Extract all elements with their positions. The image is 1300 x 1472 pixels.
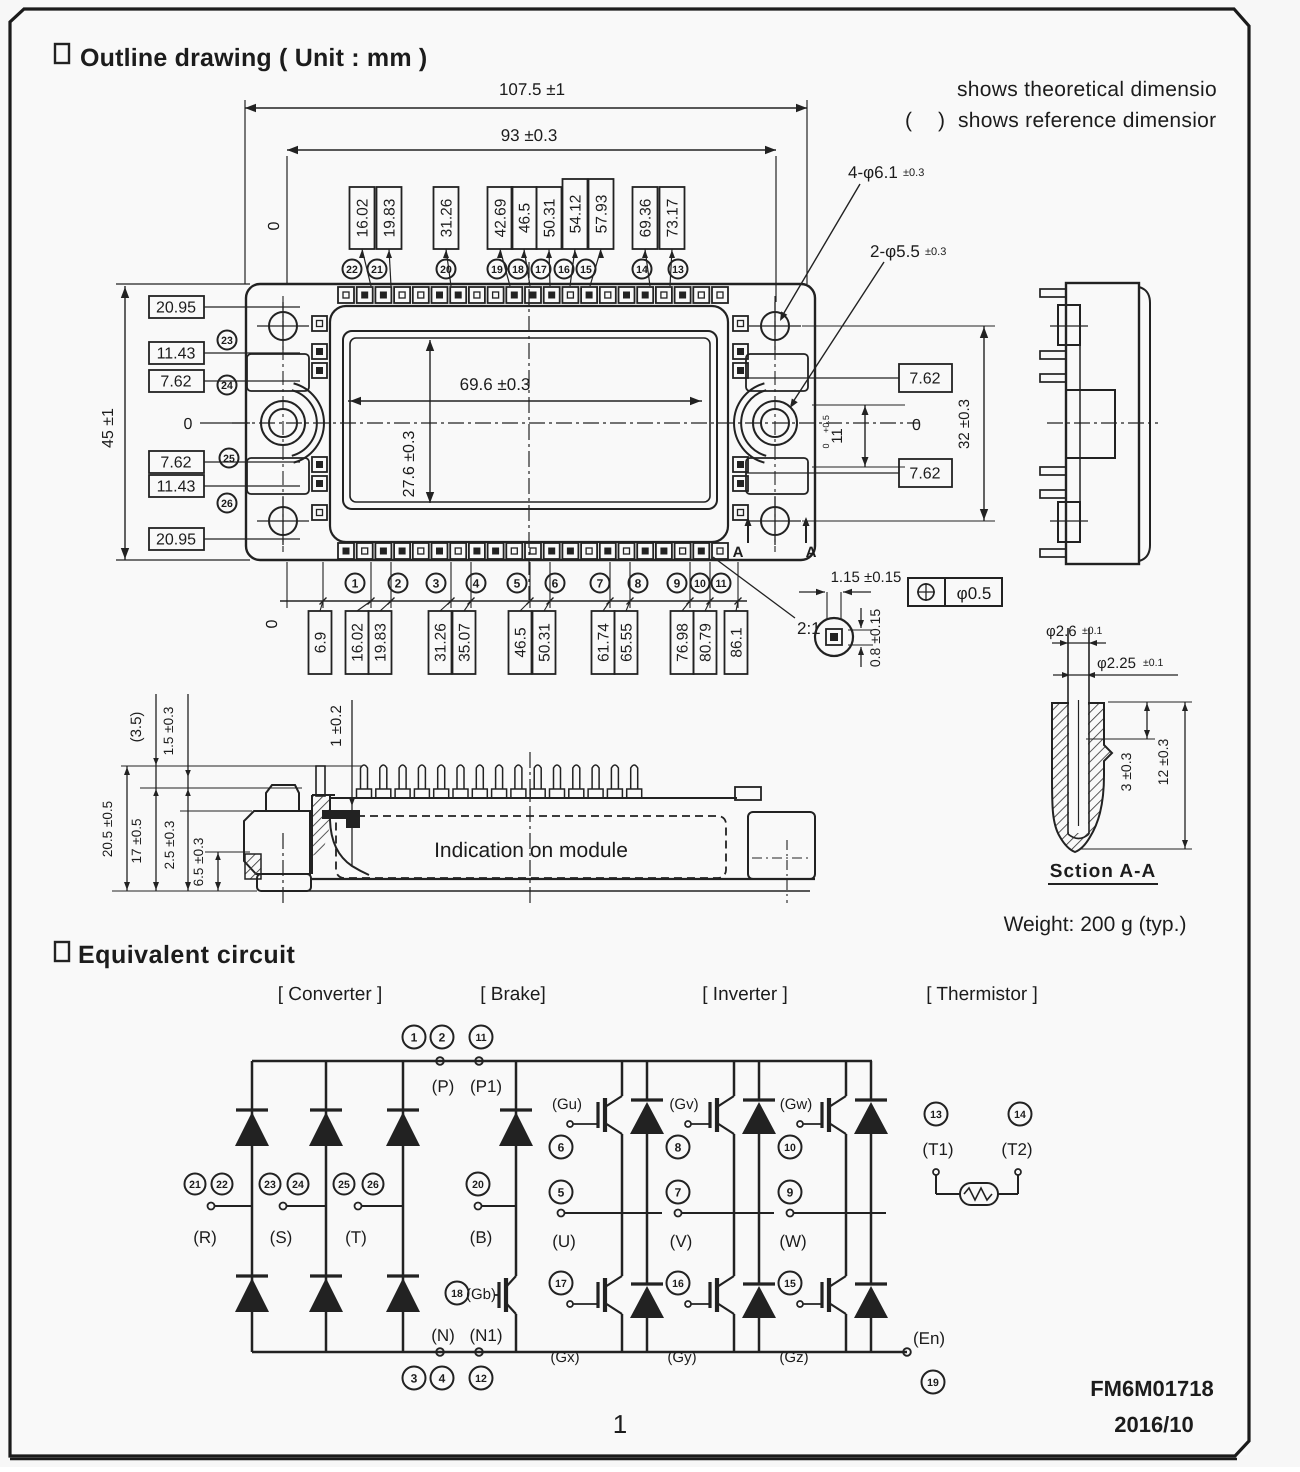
svg-text:17 ±0.5: 17 ±0.5 [129,819,144,864]
svg-text:20.95: 20.95 [156,532,196,549]
svg-text:1: 1 [352,576,359,590]
svg-text:(3.5): (3.5) [128,712,145,743]
svg-text:3: 3 [433,576,440,590]
svg-text:9: 9 [674,576,681,590]
svg-text:(T1): (T1) [922,1140,953,1159]
svg-text:Weight: 200 g (typ.): Weight: 200 g (typ.) [1004,913,1187,936]
svg-text:(S): (S) [270,1228,293,1247]
svg-text:9: 9 [787,1185,794,1199]
svg-text:2: 2 [395,576,402,590]
svg-text:(N1): (N1) [469,1326,502,1345]
svg-text:(W): (W) [779,1232,806,1251]
svg-text:0: 0 [264,619,281,628]
svg-text:(Gv): (Gv) [669,1096,698,1113]
svg-text:26: 26 [221,498,233,510]
svg-text:50.31: 50.31 [537,623,554,662]
svg-text:2: 2 [439,1030,446,1044]
svg-text:(Gw): (Gw) [780,1096,813,1113]
svg-text:45 ±1: 45 ±1 [100,408,117,448]
svg-text:): ) [938,109,945,132]
svg-text:69.6 ±0.3: 69.6 ±0.3 [460,375,531,394]
svg-text:21: 21 [371,264,383,276]
svg-text:1: 1 [411,1030,418,1044]
svg-text:Indication on module: Indication on module [434,839,628,862]
svg-text:(R): (R) [193,1228,217,1247]
svg-text:6: 6 [552,576,559,590]
svg-text:(Gu): (Gu) [552,1096,582,1113]
svg-text:6: 6 [558,1140,565,1154]
svg-text:0: 0 [266,221,283,230]
svg-text:19.83: 19.83 [373,623,390,662]
svg-text:31.26: 31.26 [433,623,450,662]
svg-text:22: 22 [216,1179,228,1191]
svg-text:1.15 ±0.15: 1.15 ±0.15 [831,569,902,586]
svg-text:(Gx): (Gx) [550,1349,579,1366]
svg-text:23: 23 [264,1179,276,1191]
svg-text:(: ( [905,109,912,132]
svg-text:φ0.5: φ0.5 [957,584,992,603]
svg-text:57.93: 57.93 [594,195,611,234]
svg-text:[ Thermistor ]: [ Thermistor ] [926,984,1038,1005]
svg-text:(Gb): (Gb) [466,1286,496,1303]
svg-text:19: 19 [491,264,503,276]
svg-text:4: 4 [439,1371,446,1385]
svg-text:3: 3 [411,1371,418,1385]
svg-text:(T2): (T2) [1001,1140,1032,1159]
svg-text:11: 11 [475,1032,486,1044]
svg-text:13: 13 [672,264,684,276]
svg-text:5: 5 [558,1185,565,1199]
svg-text:7.62: 7.62 [160,455,191,472]
svg-text:69.36: 69.36 [638,199,655,238]
svg-text:26: 26 [367,1179,379,1191]
svg-text:A: A [733,544,744,561]
svg-text:19: 19 [927,1377,939,1389]
svg-text:107.5 ±1: 107.5 ±1 [499,80,565,99]
svg-text:(N): (N) [431,1326,455,1345]
svg-text:20.95: 20.95 [156,300,196,317]
svg-text:[ Brake]: [ Brake] [480,984,545,1005]
svg-text:1: 1 [613,1409,627,1439]
svg-text:61.74: 61.74 [596,623,613,662]
svg-text:73.17: 73.17 [665,199,682,238]
svg-text:14: 14 [636,264,648,276]
svg-text:32 ±0.3: 32 ±0.3 [956,399,973,449]
svg-text:10: 10 [694,578,706,590]
svg-text:3 ±0.3: 3 ±0.3 [1118,752,1134,791]
svg-text:φ2.25: φ2.25 [1097,655,1136,672]
svg-text:17: 17 [555,1278,567,1290]
svg-text:86.1: 86.1 [729,627,746,657]
svg-text:20.5 ±0.5: 20.5 ±0.5 [100,801,115,857]
svg-text:0.8 ±0.15: 0.8 ±0.15 [867,609,883,667]
svg-text:11: 11 [829,428,846,444]
svg-text:25: 25 [338,1179,350,1191]
svg-text:18: 18 [451,1288,463,1300]
svg-text:4: 4 [473,576,480,590]
svg-text:shows reference dimensior: shows reference dimensior [958,109,1216,132]
svg-text:11: 11 [715,578,726,590]
svg-text:2-φ5.5: 2-φ5.5 [870,242,920,261]
svg-text:+0.5: +0.5 [821,415,831,433]
svg-text:19.83: 19.83 [382,199,399,238]
svg-text:Equivalent circuit: Equivalent circuit [78,941,296,969]
svg-text:(P1): (P1) [470,1077,502,1096]
svg-text:16.02: 16.02 [355,199,372,238]
svg-text:FM6M01718: FM6M01718 [1090,1376,1214,1401]
svg-text:8: 8 [635,576,642,590]
svg-text:16: 16 [558,264,570,276]
svg-text:31.26: 31.26 [439,199,456,238]
svg-text:2016/10: 2016/10 [1114,1412,1194,1437]
svg-text:(U): (U) [552,1232,576,1251]
svg-text:46.5: 46.5 [513,627,530,657]
svg-text:21: 21 [189,1179,201,1191]
svg-text:1 ±0.2: 1 ±0.2 [328,705,345,747]
svg-text:(En): (En) [913,1329,945,1348]
svg-text:(Gy): (Gy) [667,1349,696,1366]
svg-text:7.62: 7.62 [909,466,940,483]
svg-text:Outline drawing ( Unit : mm ): Outline drawing ( Unit : mm ) [80,44,427,72]
svg-text:76.98: 76.98 [675,623,692,662]
svg-text:(B): (B) [470,1228,493,1247]
svg-text:27.6 ±0.3: 27.6 ±0.3 [401,431,418,498]
svg-text:12 ±0.3: 12 ±0.3 [1155,738,1171,785]
svg-text:17: 17 [535,264,547,276]
svg-text:7: 7 [675,1185,682,1199]
svg-text:22: 22 [346,264,358,276]
svg-text:2.5 ±0.3: 2.5 ±0.3 [162,821,177,870]
svg-text:13: 13 [930,1109,942,1121]
svg-text:(T): (T) [345,1228,367,1247]
svg-text:5: 5 [514,576,521,590]
svg-text:65.55: 65.55 [619,623,636,662]
svg-text:25: 25 [223,453,235,465]
svg-text:0: 0 [821,443,831,448]
svg-text:18: 18 [512,264,524,276]
svg-text:shows theoretical dimensio: shows theoretical dimensio [957,78,1217,101]
svg-text:±0.1: ±0.1 [1082,625,1103,637]
svg-text:6.5 ±0.3: 6.5 ±0.3 [191,838,206,887]
svg-text:35.07: 35.07 [457,623,474,662]
svg-text:7.62: 7.62 [160,374,191,391]
svg-text:20: 20 [472,1179,484,1191]
svg-text:4-φ6.1: 4-φ6.1 [848,163,898,182]
svg-text:7: 7 [597,576,604,590]
svg-text:20: 20 [440,264,452,276]
svg-text:A: A [806,544,817,561]
svg-text:[ Converter ]: [ Converter ] [278,984,383,1005]
svg-text:±0.1: ±0.1 [1143,657,1164,669]
svg-text:15: 15 [580,264,592,276]
svg-text:11.43: 11.43 [157,479,196,496]
svg-text:16.02: 16.02 [350,623,367,662]
svg-text:15: 15 [784,1278,796,1290]
svg-text:(V): (V) [670,1232,693,1251]
svg-text:±0.3: ±0.3 [925,246,946,258]
svg-text:7.62: 7.62 [909,371,940,388]
svg-text:11.43: 11.43 [157,346,196,363]
svg-text:1.5 ±0.3: 1.5 ±0.3 [161,707,176,756]
svg-text:6.9: 6.9 [313,632,330,654]
svg-text:42.69: 42.69 [493,199,510,238]
svg-text:24: 24 [292,1179,304,1191]
svg-text:50.31: 50.31 [542,199,559,238]
svg-text:46.5: 46.5 [517,203,534,233]
svg-text:(P): (P) [432,1077,455,1096]
svg-text:16: 16 [672,1278,684,1290]
svg-text:0: 0 [184,416,193,433]
svg-text:Sction A-A: Sction A-A [1050,861,1156,882]
svg-text:φ2.6: φ2.6 [1046,623,1077,640]
svg-text:(Gz): (Gz) [779,1349,808,1366]
svg-text:24: 24 [221,380,233,392]
svg-text:8: 8 [675,1140,682,1154]
svg-text:±0.3: ±0.3 [903,167,924,179]
svg-text:14: 14 [1014,1109,1026,1121]
svg-text:54.12: 54.12 [568,195,585,234]
svg-text:23: 23 [221,335,233,347]
svg-text:12: 12 [475,1373,487,1385]
svg-text:[ Inverter ]: [ Inverter ] [702,984,788,1005]
svg-text:93 ±0.3: 93 ±0.3 [501,126,558,145]
svg-text:80.79: 80.79 [698,623,715,662]
svg-text:0: 0 [912,417,921,434]
svg-text:10: 10 [784,1142,796,1154]
